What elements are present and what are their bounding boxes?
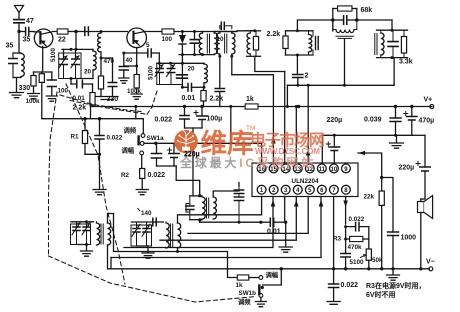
arrow pin12 feed: [306, 149, 311, 156]
wire V- rail: [109, 268, 430, 270]
resistor 100k (T1 bias): [33, 72, 35, 76]
wire T1 base: [34, 31, 40, 33]
varactor gang4 a: [136, 222, 138, 229]
osc transformer B core: [170, 224, 172, 247]
transformer T5 right coil: [213, 197, 216, 219]
wire top rail 2: [88, 31, 127, 33]
SW1b contact FM: [259, 294, 263, 298]
varactor gang3 a: [76, 222, 78, 227]
capacitor 100u rail: [201, 107, 203, 117]
dashed gang link vertical: [49, 92, 58, 256]
svg-text:R2: R2: [121, 172, 130, 179]
IC ULN2204 body: [252, 163, 358, 197]
svg-text:WWW.DZSC.COM: WWW.DZSC.COM: [255, 147, 320, 156]
capacitor 0.022 rail: [184, 107, 186, 116]
capacitor 0.01 (AM osc): [77, 80, 83, 88]
capacitor 470u: [411, 107, 413, 117]
svg-text:100µ: 100µ: [207, 116, 223, 123]
varactor gang2 a: [159, 63, 161, 68]
wire gang2 left edge: [156, 63, 158, 84]
IC pins 16-9 circles: [342, 164, 351, 173]
V+ terminal: [430, 105, 434, 109]
wire SW1a AM leg: [141, 155, 143, 169]
ground 5100 cap: [46, 96, 57, 101]
svg-text:20: 20: [84, 69, 92, 76]
V- terminal: [429, 267, 433, 271]
ground gang4: [142, 253, 154, 258]
svg-text:维库: 维库: [201, 129, 254, 159]
resistor 100: [162, 29, 174, 34]
svg-text:22k: 22k: [364, 194, 375, 201]
wire y135 bus: [322, 134, 412, 136]
varactor gang1 a: [63, 49, 65, 59]
varactor gang3 b: [86, 222, 88, 227]
node gang1 bottom: [70, 77, 73, 80]
wire 68k left node: [332, 9, 334, 32]
wire pin3 down: [284, 197, 286, 223]
node IFB bottoms: [219, 54, 221, 56]
wire IFB right down: [231, 56, 233, 74]
wire mid tank down: [296, 55, 298, 75]
wire gang3 top: [71, 221, 94, 223]
resistor 22k: [381, 178, 383, 192]
varactor gang4 b: [146, 222, 148, 229]
wire y247.5 to pin2: [124, 197, 273, 248]
svg-text:2: 2: [305, 73, 309, 80]
svg-text:V+: V+: [424, 97, 433, 104]
wire gang4 bottom: [137, 245, 149, 247]
tank2 coil: [381, 33, 384, 55]
ground 100k T2: [131, 94, 142, 99]
wire gang4 top: [132, 221, 164, 223]
svg-text:调频: 调频: [124, 126, 137, 135]
dashed gang link lower: [70, 101, 147, 115]
wire line Q to pin6: [110, 258, 112, 269]
ground gang3: [81, 251, 93, 256]
capacitor pair right of T5: [238, 186, 240, 190]
ground R1 net: [93, 190, 106, 195]
IF transformer C winding: [336, 30, 354, 33]
arrow pin14 feed: [282, 147, 287, 154]
svg-text:调幅: 调幅: [266, 270, 279, 279]
capacitor gang4 series: [153, 218, 156, 226]
capacitor 0.01 FM: [188, 84, 192, 92]
svg-text:ULN2204: ULN2204: [292, 178, 319, 185]
node det cap: [193, 30, 196, 33]
wire T5 bottom to y222: [199, 220, 201, 222]
svg-text:2.2k: 2.2k: [267, 31, 281, 38]
tuning gang 3 frame: [71, 224, 91, 245]
varactor gang1 b: [75, 49, 77, 59]
wire railA to railB link: [135, 107, 137, 119]
SW1a contact FM: [141, 134, 145, 138]
wire R22 to node: [68, 31, 76, 33]
coil 470: [98, 33, 101, 52]
tuning gang 4 frame: [131, 225, 152, 246]
osc transformer A left coil: [97, 223, 100, 245]
svg-text:V−: V−: [426, 259, 435, 266]
tank2 resistor: [403, 30, 405, 36]
wire pin13 feed: [295, 107, 297, 164]
tank L1: capacitor: [12, 53, 14, 59]
wire gang2 top: [157, 62, 204, 64]
capacitor 0.039: [395, 107, 397, 119]
resistor 22: [57, 29, 68, 34]
diode D1: [181, 32, 183, 36]
wire pin12 feed: [307, 85, 309, 163]
resistor below 470: [100, 58, 102, 76]
coil 20a: [93, 51, 96, 70]
node cap5 left: [122, 52, 125, 55]
dashed gang link mid: [66, 84, 125, 284]
wire gang3 bottom: [77, 244, 87, 246]
wire C center tap: [344, 40, 346, 86]
IF transformer A left coil: [199, 33, 202, 54]
ground SW1b: [260, 297, 262, 301]
node coil470 top: [100, 30, 103, 33]
mid tank cap bars: [316, 37, 319, 50]
coil 20b: [204, 64, 207, 83]
dashed gang link bottom: [49, 256, 257, 302]
svg-text:35: 35: [23, 37, 31, 44]
svg-text:R1: R1: [71, 134, 80, 141]
svg-text:5100: 5100: [50, 47, 57, 62]
svg-text:SW1b: SW1b: [239, 290, 257, 297]
capacitor 0.022 R3: [346, 226, 356, 228]
capacitor 5: [124, 52, 147, 54]
tank 2.2k resistor: [253, 37, 258, 51]
osc transformer B right coil: [178, 223, 181, 248]
osc transformer A right coil: [108, 223, 111, 245]
transistor T1: [34, 29, 53, 48]
capacitor 220u mid-right: [333, 135, 335, 147]
ground pin3: [279, 247, 292, 252]
wire node to gang1: [75, 32, 77, 50]
svg-text:47: 47: [26, 18, 34, 25]
svg-text:100: 100: [162, 36, 173, 43]
node T5 bottom: [198, 218, 201, 221]
tank2 top wire: [377, 29, 408, 31]
dashed gang link upper: [60, 95, 141, 112]
IF transformer B core: [224, 34, 226, 53]
wire 68k to tank2: [357, 19, 392, 21]
svg-text:10: 10: [217, 36, 225, 43]
svg-text:68k: 68k: [361, 7, 373, 14]
ground 470 network: [96, 97, 118, 100]
wire y85 bus: [287, 84, 394, 86]
svg-text:20: 20: [188, 66, 196, 73]
mid tank right side: [312, 31, 314, 36]
svg-text:R3: R3: [333, 236, 342, 243]
mid tank top wire: [286, 30, 314, 32]
svg-text:100: 100: [58, 88, 69, 95]
resistor to rail B: [41, 72, 43, 74]
ground 100k: [28, 94, 40, 99]
resistor 2.2k mid: [203, 87, 205, 90]
capacitor 220u AF: [173, 143, 175, 153]
capacitor 5100 (emitter): [51, 72, 53, 80]
wire y233 to pin5: [188, 197, 308, 234]
svg-text:220µ: 220µ: [327, 117, 343, 124]
IF transformer A right coil: [214, 33, 217, 54]
resistor 68k: [333, 8, 338, 10]
node rail A joints: [183, 105, 186, 108]
svg-text:220µ: 220µ: [399, 165, 415, 172]
wire T2 collector out: [146, 31, 162, 33]
svg-text:330: 330: [107, 96, 119, 103]
ground R2: [136, 190, 148, 195]
svg-text:140: 140: [141, 210, 152, 217]
ground v+ decouple: [396, 135, 398, 142]
wire y222 right: [274, 221, 286, 223]
capacitor 35 (series): [19, 31, 25, 33]
svg-text:5100: 5100: [148, 65, 155, 80]
wire oscB right bottom: [177, 248, 179, 252]
arrow pin9: [359, 151, 366, 156]
capacitor 10: [219, 26, 221, 29]
SW1b lever: [258, 286, 260, 295]
node T5 top: [198, 194, 201, 197]
tank2 cap: [392, 30, 394, 41]
wire 1k to contact: [249, 277, 259, 279]
capacitor 5100 R3: [345, 239, 347, 254]
wire oscA right top: [108, 214, 114, 224]
svg-text:470k: 470k: [348, 244, 363, 251]
svg-text:50k: 50k: [372, 257, 383, 264]
osc transformer B left coil: [166, 223, 169, 248]
tank 2.2k wires: [247, 30, 261, 32]
osc transformer A core: [100, 224, 102, 244]
svg-text:330: 330: [19, 85, 31, 92]
wire det to AF: [230, 107, 232, 144]
svg-text:5: 5: [146, 42, 150, 49]
wire T1 collector to R 22: [53, 31, 58, 33]
tank2 bottom wire: [377, 57, 408, 59]
capacitor 47: [14, 20, 24, 23]
ground V- area: [392, 269, 394, 275]
svg-text:SW1a: SW1a: [147, 135, 165, 142]
wire det node row: [179, 54, 214, 56]
ground tank L1: [10, 93, 24, 98]
wire line P: [114, 214, 238, 278]
IF transformer B right coil: [232, 33, 235, 54]
wire 68k right node: [356, 9, 358, 21]
mid tank coil: [309, 35, 312, 53]
resistor 1k SW1b: [237, 275, 249, 280]
capacitor 220u out: [420, 167, 430, 171]
wire tank bottom chain: [255, 56, 285, 71]
node gang1 top: [70, 48, 73, 51]
wire rail A: [91, 106, 432, 108]
wire AF line: [144, 142, 262, 144]
tank L1: top/bottom wires: [13, 52, 21, 54]
antenna: [15, 6, 24, 13]
svg-text:2.2k: 2.2k: [73, 105, 87, 112]
capacitor 330 mid: [112, 58, 114, 83]
svg-text:100k: 100k: [26, 98, 41, 105]
wire T2 emitter: [136, 48, 138, 67]
wire gang1 bottom chain: [70, 79, 72, 85]
SW1a common contact: [140, 142, 144, 146]
svg-text:35: 35: [6, 43, 14, 50]
capacitor 0.022 AF: [156, 143, 158, 153]
R1 resistor: [84, 119, 86, 131]
svg-text:3.3k: 3.3k: [399, 59, 413, 66]
resistor 100k T2: [136, 66, 138, 75]
arrow pin4: [294, 200, 299, 207]
svg-text:1000: 1000: [401, 235, 417, 242]
wire y222 line: [200, 221, 261, 223]
resistor 1k rail: [245, 104, 258, 109]
SW1a lever: [137, 137, 139, 145]
capacitor 40: [123, 53, 125, 67]
resistor 2.2k left: [90, 93, 95, 106]
arrow pin2: [271, 200, 276, 207]
svg-text:0.01: 0.01: [182, 95, 196, 102]
IF transformer C core: [336, 35, 354, 37]
wire tank2 down: [393, 58, 395, 86]
svg-text:2.2k: 2.2k: [210, 96, 224, 103]
arrow pin6: [319, 200, 324, 207]
capacitor 0.01 het: [270, 218, 273, 226]
resistor 470k: [345, 227, 347, 239]
capacitor 2b: [215, 89, 224, 92]
capacitor series top rail: [85, 27, 89, 35]
wire y240 to pin4: [160, 197, 296, 241]
transformer T5 left coil: [202, 197, 205, 219]
svg-text:0.022: 0.022: [107, 135, 123, 142]
svg-text:0.039: 0.039: [364, 117, 382, 124]
svg-text:TM: TM: [246, 125, 255, 132]
wire speaker top lead: [420, 199, 422, 202]
wire 220u to speaker: [424, 171, 426, 199]
node collector rail: [74, 30, 77, 33]
node gang3: [85, 220, 88, 223]
svg-text:全球最大IC采购网站: 全球最大IC采购网站: [179, 155, 316, 170]
wire coil470 bottom: [100, 52, 102, 58]
wire pin9 to 1000: [382, 178, 393, 233]
svg-text:0.01: 0.01: [267, 229, 281, 236]
svg-text:调幅: 调幅: [122, 146, 135, 155]
watermark logo circle: [174, 128, 198, 153]
wire oscA right to V- rail: [107, 245, 109, 269]
svg-text:100k: 100k: [127, 88, 142, 95]
capacitor 68k parallel: [333, 19, 343, 21]
ground cap40: [119, 78, 129, 83]
svg-text:调频: 调频: [238, 297, 251, 306]
wire pin9 out: [358, 153, 382, 178]
wire pin8 down: [345, 197, 347, 225]
svg-text:10: 10: [331, 167, 338, 173]
wire R1 net to gnd: [99, 154, 101, 189]
SW1a contact AM: [140, 151, 144, 155]
wire R100 to diode rail: [174, 31, 237, 33]
capacitor 0.022 R1: [99, 119, 101, 136]
wire rail B: [42, 118, 144, 120]
capacitor det: [194, 32, 196, 40]
svg-text:11: 11: [319, 167, 326, 173]
wire railB to SW1a: [142, 119, 144, 134]
svg-text:40: 40: [126, 57, 134, 64]
wire AF caps bottom: [157, 165, 177, 167]
mid tank bottom wire: [286, 54, 314, 56]
wire T1 emitter down: [42, 47, 44, 73]
pot 50k: [368, 239, 370, 249]
IF transformer A core: [206, 34, 208, 53]
wire rail caps bottom: [185, 127, 203, 129]
tank2 core: [374, 34, 376, 55]
capacitor 0.022 pin7: [333, 269, 335, 284]
mid tank left side + resistor: [285, 31, 287, 36]
arrow pin8: [343, 201, 348, 208]
svg-text:1k: 1k: [246, 96, 254, 103]
wire T5 right top chain: [213, 191, 239, 197]
transistor T2: [127, 28, 147, 48]
IF transformer B left coil: [217, 33, 220, 54]
transformer T5 core: [206, 198, 208, 218]
svg-text:0.022: 0.022: [349, 216, 365, 223]
svg-text:22: 22: [58, 37, 66, 44]
wire speaker to V- rail: [420, 213, 422, 269]
wire emitter bus: [34, 71, 52, 73]
wire oscB right top: [178, 215, 220, 223]
svg-text:5100: 5100: [350, 259, 365, 266]
svg-text:1k: 1k: [236, 282, 244, 289]
svg-text:0.022: 0.022: [148, 172, 166, 179]
tuning gang 1 frame: [59, 53, 81, 79]
IC pins 1-8 circles: [257, 185, 266, 194]
svg-text:470µ: 470µ: [419, 118, 435, 125]
wire pin14 feed: [284, 72, 286, 164]
node antenna junction: [17, 30, 20, 33]
capacitor 1000: [388, 232, 399, 236]
transformer T5 cap: [189, 204, 191, 207]
wire mid tank up link: [297, 20, 332, 31]
wire pin7 down: [333, 197, 335, 269]
wire pin11 top: [321, 135, 323, 163]
wire pin15 feed: [272, 75, 274, 163]
svg-text:R3在电源9V时用，: R3在电源9V时用，: [366, 281, 426, 290]
node diode top: [181, 30, 184, 33]
svg-text:0.022: 0.022: [155, 117, 173, 124]
speaker: [418, 202, 425, 213]
svg-text:6V时不用: 6V时不用: [366, 290, 396, 299]
varactor gang2 b: [170, 63, 172, 68]
capacitor gang2 fixed: [177, 75, 188, 78]
capacitor 2: [293, 75, 303, 78]
wire V- to SW1b lever: [263, 269, 282, 285]
arrow pin15 feed: [271, 137, 276, 144]
wire y135 to 220u out: [412, 134, 425, 136]
pot 50k wiper: [361, 255, 366, 258]
tank 2.2k coil: [247, 33, 250, 54]
R2 resistor: [140, 169, 145, 179]
SW1b contact AM: [259, 276, 263, 280]
wire top rail: [76, 31, 89, 33]
wire y214.8 to pin1: [219, 197, 262, 215]
tank L1: coil: [21, 54, 24, 77]
wire IFB left down: [219, 56, 221, 88]
svg-text:0.022: 0.022: [341, 282, 359, 289]
wire rail to tank 2.2k: [237, 30, 255, 32]
wire cap to 2.2k resistor: [82, 83, 92, 85]
wire antenna to tank: [18, 32, 20, 54]
dashed gang link to gang2: [147, 88, 158, 114]
